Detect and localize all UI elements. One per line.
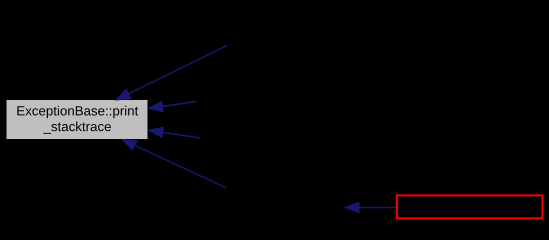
edge arrow 2 (upper short caller): [149, 101, 197, 111]
node ExceptionBase::print_stacktrace: [7, 100, 148, 139]
edge arrow 4 (from bottom-right caller): [122, 140, 227, 189]
truncated caller node (red border, unlabeled): [397, 195, 543, 218]
edge arrow 3 (lower short caller): [149, 127, 200, 138]
edge arrow 1 (from top-right caller): [116, 46, 227, 101]
edge arrow 5 (from red truncated node): [345, 202, 396, 213]
